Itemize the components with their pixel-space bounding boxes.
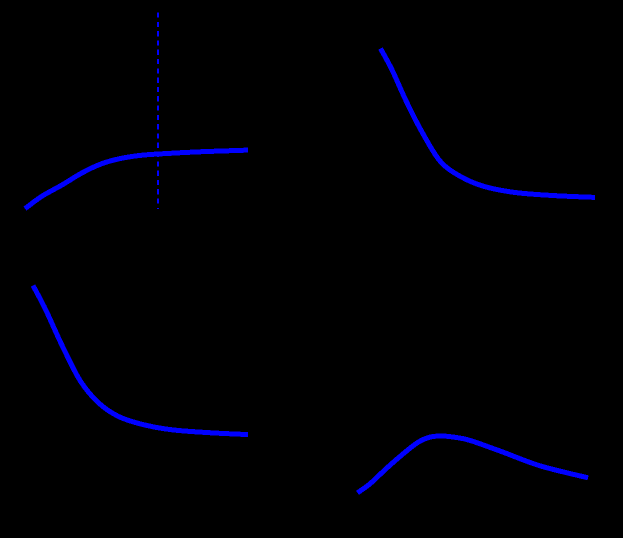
- curve bottom-right (hump): [358, 436, 589, 493]
- curve bottom-left (decreasing, convex): [33, 286, 248, 435]
- dashed vertical line top-left: [157, 13, 159, 210]
- curve top-left (production function): [25, 150, 248, 209]
- curve top-right (decreasing, convex): [381, 49, 596, 198]
